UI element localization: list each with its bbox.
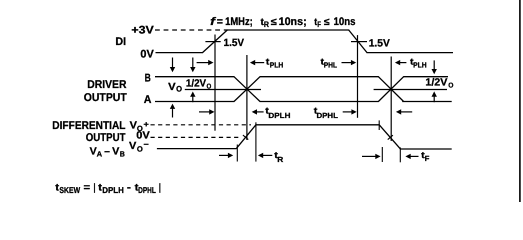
DI 0V level left — [156, 52, 204, 54]
cross tick on falling edge at 0V — [388, 135, 393, 139]
DI 0V level right — [367, 52, 454, 54]
A low level right — [402, 101, 452, 103]
tPLH arrow pointing right at L1 — [197, 60, 214, 65]
svg-text:V: V — [168, 82, 176, 93]
DI rise 1.5V cross tick — [205, 41, 220, 43]
B rising edge crossover 2 — [378, 77, 403, 102]
svg-text:f: f — [210, 16, 217, 28]
label tDPLH — [265, 105, 290, 120]
cross tick on rising edge at 0V — [243, 135, 248, 139]
mid level line crossover 1 — [185, 89, 261, 91]
differential rising edge — [236, 125, 256, 149]
svg-text:1MHz;: 1MHz; — [225, 16, 253, 28]
svg-text:−: − — [144, 140, 150, 149]
svg-text:DPLH: DPLH — [268, 111, 290, 120]
A falling edge crossover 2 — [378, 77, 403, 102]
tDPLH arrow pointing left at L2 — [252, 109, 264, 114]
svg-text:OUTPUT: OUTPUT — [84, 92, 127, 104]
svg-text:1/2V: 1/2V — [425, 78, 447, 89]
svg-text:1/2V: 1/2V — [186, 79, 206, 90]
tR left corner tick — [236, 145, 238, 162]
B low level middle — [260, 101, 379, 103]
svg-text:+3V: +3V — [131, 25, 154, 37]
svg-text:0V: 0V — [140, 49, 154, 61]
A high level middle — [260, 76, 379, 78]
VO down arrow above B — [170, 58, 175, 73]
svg-text:R: R — [264, 20, 269, 29]
reference line L3 (DI fall crossing) — [357, 35, 359, 118]
svg-text:1.5V: 1.5V — [224, 37, 245, 49]
formula tSKEW = | tDPLH - tDPHL | — [55, 182, 161, 195]
tF arrow pointing right at left tick — [362, 154, 381, 159]
svg-text:+: + — [144, 120, 150, 129]
VO- level left — [157, 148, 237, 150]
svg-text:=: = — [217, 16, 223, 28]
svg-text:–: – — [104, 146, 110, 157]
B high level right — [403, 76, 448, 78]
svg-text:O: O — [448, 82, 454, 89]
reference line L4 (second A/B crossover) — [390, 57, 392, 142]
svg-text:=: = — [84, 182, 91, 193]
DI high level — [227, 29, 349, 31]
tDPLH arrow pointing right at L1 — [199, 109, 215, 114]
label tPLH (first) — [266, 57, 284, 70]
tR arrow pointing left at right tick — [258, 153, 272, 158]
label 1/2VO left — [186, 79, 212, 91]
svg-text:DRIVER: DRIVER — [87, 79, 126, 91]
DI rising edge — [203, 30, 228, 53]
DI +3V dashed level — [155, 29, 227, 31]
tPHL arrow pointing right at L3 — [342, 60, 357, 65]
tPLH arrow pointing left at L4 — [395, 60, 407, 65]
svg-text:V: V — [129, 141, 136, 152]
svg-text:DPHL: DPHL — [138, 185, 156, 195]
B high level left — [155, 76, 234, 78]
label VO+ — [130, 120, 150, 133]
svg-text:10ns;: 10ns; — [279, 16, 307, 28]
label VO- — [129, 140, 149, 154]
svg-text:F: F — [317, 20, 321, 29]
differential falling edge — [379, 125, 400, 149]
right table border — [519, 0, 521, 202]
svg-text:DPLH: DPLH — [102, 185, 124, 195]
svg-text:OUTPUT: OUTPUT — [86, 132, 126, 144]
VO- level right — [400, 148, 452, 150]
svg-text:V: V — [112, 146, 119, 157]
svg-text:A: A — [97, 150, 103, 159]
tDPHL arrow pointing left at L4 — [396, 109, 412, 114]
VO up arrow below A — [170, 104, 175, 118]
svg-text:B: B — [120, 150, 126, 159]
svg-text:DI: DI — [115, 36, 126, 48]
svg-text:-: - — [127, 182, 131, 193]
reference line L1 (DI rise crossing) — [214, 35, 216, 131]
mid level line crossover 2 — [374, 89, 447, 91]
tF left tick — [381, 147, 383, 162]
tPLH arrow pointing left at L2 — [250, 60, 264, 65]
svg-text:≤: ≤ — [271, 17, 278, 28]
B falling edge crossover 1 — [234, 77, 260, 102]
label VA - VB — [90, 146, 126, 158]
differential high level — [256, 124, 380, 126]
1/2VO down arrow right side — [432, 60, 437, 74]
svg-text:F: F — [425, 154, 430, 163]
svg-text:DIFFERENTIAL: DIFFERENTIAL — [52, 120, 125, 132]
svg-text:O: O — [207, 84, 212, 91]
svg-text:PHL: PHL — [324, 60, 338, 69]
label tPLH (second) — [410, 57, 427, 70]
A rising edge crossover 1 — [234, 77, 260, 102]
label tR — [274, 150, 284, 164]
svg-text:10ns: 10ns — [334, 16, 356, 28]
svg-text:V: V — [90, 146, 97, 157]
VO+ dashed level — [151, 124, 252, 126]
svg-text:1.5V: 1.5V — [369, 37, 390, 49]
A low level left — [155, 101, 234, 103]
svg-text:≤: ≤ — [324, 17, 330, 28]
0V dashed level — [151, 136, 242, 138]
svg-text:|: | — [159, 182, 161, 193]
1/2VO up arrow at mid line — [190, 92, 195, 103]
label 1/2VO right — [425, 78, 454, 90]
svg-text:A: A — [144, 94, 152, 106]
DI fall 1.5V cross tick — [351, 41, 367, 43]
svg-text:PLH: PLH — [413, 60, 427, 69]
label tF — [421, 150, 430, 163]
svg-text:|: | — [94, 182, 96, 193]
svg-text:O: O — [137, 145, 143, 154]
svg-text:O: O — [176, 85, 182, 94]
falling edge top corner tick — [378, 120, 380, 130]
label VO — [168, 82, 182, 94]
top condition text f = 1MHz; tR ≤ 10ns; tF ≤ 10ns — [210, 16, 355, 29]
label tPHL — [321, 57, 338, 70]
tR arrow pointing right at left tick — [219, 153, 233, 158]
DI falling edge — [349, 30, 367, 53]
svg-text:PLH: PLH — [270, 60, 284, 69]
svg-text:SKEW: SKEW — [59, 185, 80, 195]
tF right tick — [399, 147, 401, 162]
svg-text:DPHL: DPHL — [317, 111, 339, 120]
svg-text:B: B — [145, 72, 151, 84]
label tDPHL — [314, 105, 339, 120]
1/2VO up arrow right side — [432, 91, 437, 102]
reference line L2 (first A/B crossover) — [246, 55, 248, 140]
svg-text:R: R — [277, 155, 284, 164]
tR right corner tick — [255, 122, 257, 161]
1/2VO down arrow above B — [190, 58, 195, 73]
tF arrow pointing left at right tick — [405, 154, 418, 159]
tDPHL arrow pointing right at L3 — [343, 109, 357, 114]
